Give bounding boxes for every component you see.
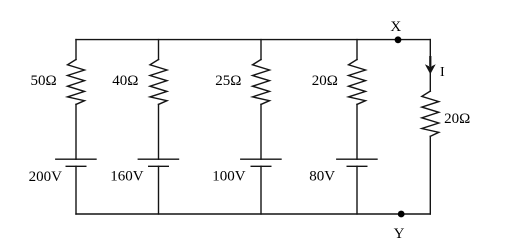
wire branch2 bottom lead [158,166,160,214]
resistor R5 20ohm (right branch) [422,91,439,136]
battery B1 200V long plate [56,158,96,160]
wire bottom bus [76,213,430,215]
value label 40ohm [112,73,138,89]
wire branch1 bottom lead [75,166,77,214]
value label 20ohm (right branch) [444,111,470,127]
battery B2 160V long plate [138,158,178,160]
value label 20ohm (branch 4) [312,73,338,89]
wire right vertical upper (X to R5) [429,40,431,92]
resistor R4 20ohm [349,60,366,105]
battery B3 100V short plate [251,165,271,167]
svg-text:200V: 200V [29,169,63,185]
svg-text:20Ω: 20Ω [444,111,470,127]
label node Y [394,226,405,242]
label current I [440,65,445,80]
battery B3 100V long plate [241,158,281,160]
wire branch3 top lead [260,40,262,60]
svg-text:80V: 80V [309,169,335,185]
svg-text:20Ω: 20Ω [312,73,338,89]
current arrow I [425,56,436,74]
svg-text:50Ω: 50Ω [31,73,57,89]
resistor R3 25ohm [253,60,270,105]
svg-text:I: I [440,65,445,80]
battery B4 80V long plate [337,158,377,160]
resistor R2 40ohm [150,60,167,105]
battery B1 200V short plate [66,165,86,167]
value label 200V [29,169,63,185]
resistor R1 50ohm [68,60,85,105]
svg-text:25Ω: 25Ω [215,73,241,89]
value label 80V [309,169,335,185]
svg-text:160V: 160V [110,169,144,185]
wire branch3 bottom lead [260,166,262,214]
node Y junction dot [398,211,405,218]
wire branch1 top lead [75,40,77,60]
wire right vertical lower (R5 to Y) [429,136,431,214]
value label 25ohm [215,73,241,89]
wire top bus [76,39,430,41]
wire branch1 mid lead [75,104,77,159]
wire branch3 mid lead [260,104,262,159]
value label 160V [110,169,144,185]
wire branch4 mid lead [356,104,358,159]
wire branch4 top lead [356,40,358,60]
battery B2 160V short plate [149,165,169,167]
label node X [390,19,401,35]
svg-text:X: X [390,19,401,35]
battery B4 80V short plate [347,165,367,167]
svg-text:Y: Y [394,226,405,242]
node X junction dot [395,36,402,43]
wire branch4 bottom lead [356,166,358,214]
svg-text:40Ω: 40Ω [112,73,138,89]
wire branch2 mid lead [158,104,160,159]
wire branch2 top lead [158,40,160,60]
svg-text:100V: 100V [212,169,246,185]
value label 50ohm [31,73,57,89]
value label 100V [212,169,246,185]
